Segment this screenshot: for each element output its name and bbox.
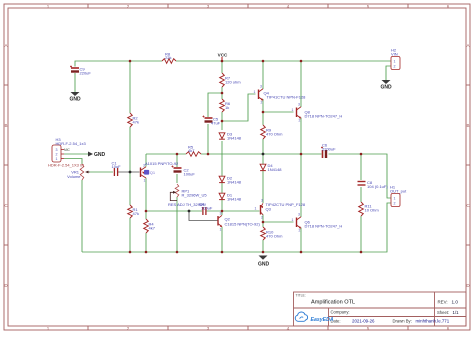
svg-text:470 Ohm: 470 Ohm <box>266 234 283 239</box>
node ground rail RP1 <box>176 251 179 254</box>
wire input node to R1 top <box>129 172 131 205</box>
svg-text:EasyEDA: EasyEDA <box>311 317 334 323</box>
capacitor C2 100uF polarized <box>172 166 182 172</box>
pin numbers Q3 <box>255 199 264 220</box>
wire H2 pin2 to GND <box>386 66 391 80</box>
svg-text:47k: 47k <box>133 211 139 216</box>
wire R2 top <box>129 61 131 113</box>
resistor R1 47k <box>128 205 133 218</box>
node ground rail R4 <box>145 251 148 254</box>
svg-text:A: A <box>4 43 7 48</box>
wire Q1 emitter up to feedback rail <box>145 154 147 167</box>
wire top supply rail left of R8 <box>75 61 162 67</box>
wire R2 bottom to input node <box>129 127 131 172</box>
wire C5 branch top <box>208 93 222 117</box>
node ground rail R11 <box>360 251 363 254</box>
power flag VCC <box>218 53 228 62</box>
svg-text:10 Ohm: 10 Ohm <box>365 208 380 213</box>
svg-text:B: B <box>4 123 7 128</box>
wire C2 branch top <box>176 154 178 167</box>
wire C1 to Q1 base <box>118 171 140 173</box>
svg-text:R_3296W_U5: R_3296W_U5 <box>182 193 208 198</box>
node top rail / R2 <box>129 60 132 63</box>
transistor Q6 D718 NPN <box>297 217 302 229</box>
svg-text:GND: GND <box>94 152 106 158</box>
node VAS / C4 right <box>221 210 224 213</box>
wire R7 to R6 <box>221 87 223 99</box>
svg-text:2: 2 <box>261 101 263 105</box>
svg-text:1N4148: 1N4148 <box>227 197 242 202</box>
wire RP1 bottom to ground rail <box>176 197 178 252</box>
svg-text:10uF: 10uF <box>112 164 122 169</box>
node input divider / Q1 base <box>129 171 132 174</box>
svg-text:1/1: 1/1 <box>453 310 460 315</box>
wire VAS node horizontal left segment <box>146 210 202 212</box>
node R7 R6 C5 <box>221 92 224 95</box>
node ground rail Q6 emitter <box>300 251 303 254</box>
wire H3 pin1 to VR1 top <box>64 159 82 165</box>
svg-text:Volume: Volume <box>67 174 81 179</box>
ground flag at H3 pin2 <box>88 152 106 159</box>
pin numbers Q2 <box>220 212 222 232</box>
svg-text:MIC: MIC <box>64 148 71 152</box>
svg-text:Company:: Company: <box>331 310 350 315</box>
svg-text:1: 1 <box>255 207 257 211</box>
ground symbol under H2 <box>380 80 392 91</box>
title block <box>294 292 467 326</box>
wire Q6 collector to output rail <box>300 154 302 217</box>
transistor Q3 TIP42CTU PNP <box>261 203 264 215</box>
wire output rail R5 to C6 <box>201 153 322 155</box>
svg-text:REV:: REV: <box>438 300 448 305</box>
pin numbers Q4 <box>254 85 263 105</box>
svg-text:470 Ohm: 470 Ohm <box>266 132 283 137</box>
pin numbers Q1 <box>143 164 146 183</box>
svg-text:C1815 NPN(TO-92): C1815 NPN(TO-92) <box>225 221 261 226</box>
node top rail / Q4 collector <box>262 60 265 63</box>
connector H3 HDR-F-2.54_1x3 <box>52 145 64 162</box>
resistor R2 47k <box>128 113 133 127</box>
svg-text:Amplification OTL: Amplification OTL <box>311 300 355 306</box>
svg-text:1.0: 1.0 <box>452 300 459 305</box>
diode D3 1N4148 <box>219 133 225 139</box>
svg-text:A1015 PNP/TO-92: A1015 PNP/TO-92 <box>145 161 179 166</box>
svg-text:2: 2 <box>56 153 58 157</box>
svg-text:1: 1 <box>254 90 256 94</box>
svg-text:D718 NPN-TO247_H: D718 NPN-TO247_H <box>305 224 343 229</box>
svg-text:Q3: Q3 <box>266 206 272 211</box>
svg-text:4k7: 4k7 <box>149 226 156 231</box>
wire Q8 collector to rail <box>300 61 302 107</box>
svg-text:1N4148: 1N4148 <box>268 167 283 172</box>
wire C9 to GND <box>74 73 76 92</box>
svg-text:104 (0.1uF): 104 (0.1uF) <box>367 184 388 189</box>
wire Q2 emitter to ground rail <box>221 227 223 252</box>
svg-text:1: 1 <box>144 179 146 183</box>
wire feedback rail left of R5 <box>146 153 186 155</box>
wire D2 to D1 <box>221 183 223 193</box>
svg-text:OUT_put: OUT_put <box>390 189 407 194</box>
svg-text:GND: GND <box>69 97 81 103</box>
node feedback rail / C2 <box>176 153 179 156</box>
svg-text:3: 3 <box>260 85 262 89</box>
wire Q8 base <box>263 111 294 113</box>
node output rail / R9 D4 <box>262 153 265 156</box>
node output rail / zobel <box>360 153 363 156</box>
svg-text:2: 2 <box>299 229 301 233</box>
wire VR1 bottom to ground rail <box>81 180 83 252</box>
svg-text:2: 2 <box>261 216 263 220</box>
resistor R7 120 ohm <box>220 73 225 87</box>
capacitor C8 104 (0.1uF) <box>358 182 366 186</box>
wire R4 bottom to ground rail <box>145 233 147 252</box>
svg-text:HDR-F-2.54_1X3 01: HDR-F-2.54_1X3 01 <box>48 163 85 168</box>
capacitor C6 2200uF polarized <box>321 147 326 159</box>
ground symbol under C9 <box>69 92 81 103</box>
svg-text:3: 3 <box>298 213 300 217</box>
wire Q8 emitter to output rail <box>300 118 302 155</box>
resistor R5 4k7 <box>186 152 201 157</box>
svg-text:2021-09-26: 2021-09-26 <box>352 319 375 324</box>
svg-text:2: 2 <box>394 202 396 206</box>
node top rail / Q8 collector <box>300 60 303 63</box>
wire C8 to R11 <box>360 187 362 202</box>
wire Q4 collector to rail <box>262 61 264 89</box>
resistor R11 10 Ohm <box>359 202 364 216</box>
svg-text:3: 3 <box>298 103 300 107</box>
wire Q2 base drop <box>189 211 218 221</box>
wire D4 to Q3 emitter <box>262 171 264 203</box>
svg-text:2: 2 <box>299 119 301 123</box>
svg-text:minhthanh.le.771: minhthanh.le.771 <box>416 319 450 324</box>
capacitor C1 10uF <box>114 168 117 176</box>
svg-text:120 ohm: 120 ohm <box>225 80 241 85</box>
svg-text:22k: 22k <box>165 55 171 60</box>
transistor Q1 A1015 PNP <box>141 167 147 178</box>
svg-text:1: 1 <box>292 218 294 222</box>
pin numbers Q6 <box>292 213 301 233</box>
EasyEDA logo <box>295 312 334 323</box>
capacitor C5 47uF polarized <box>203 116 213 122</box>
svg-text:47uF: 47uF <box>211 121 221 126</box>
capacitor C9 220uF polarized <box>70 66 79 72</box>
svg-text:1: 1 <box>220 228 222 232</box>
svg-text:Q1: Q1 <box>150 170 156 175</box>
wire R11 to ground rail <box>360 216 362 252</box>
svg-text:D718 NPN-TO247_H: D718 NPN-TO247_H <box>305 114 343 119</box>
svg-text:3: 3 <box>261 199 263 203</box>
wire Q6 emitter to ground rail <box>300 228 302 253</box>
svg-text:GND: GND <box>380 85 392 91</box>
wire R9 to output rail <box>262 139 264 154</box>
svg-text:VIN: VIN <box>391 52 398 57</box>
wire output rail C6 to H1 pin1 <box>329 154 392 198</box>
svg-text:2200uF: 2200uF <box>322 146 336 151</box>
wire node to R10 <box>262 222 264 227</box>
wire VR1 wiper to C1 <box>86 171 113 173</box>
svg-text:B: B <box>466 123 469 128</box>
pin numbers Q8 <box>292 103 301 123</box>
wire Q1 collector down <box>145 178 147 219</box>
transistor Q2 C1815 NPN <box>218 215 222 227</box>
wire D3 to D2 <box>221 141 223 176</box>
connector H1 OUT_put <box>391 194 400 207</box>
wire Q4 base drive <box>222 94 256 121</box>
wire C5 bottom to feedback rail <box>207 124 209 154</box>
svg-text:2: 2 <box>394 65 396 69</box>
node VCC / R7 <box>221 60 224 63</box>
svg-text:1k: 1k <box>225 105 229 110</box>
trimmer RP1 R_3296W_U5 <box>175 184 179 197</box>
svg-text:GND: GND <box>258 262 270 268</box>
pin numbers H3 <box>56 148 58 161</box>
wire Q6 base <box>263 221 294 223</box>
svg-text:3: 3 <box>220 212 222 216</box>
capacitor C4 100uF <box>203 207 206 215</box>
transistor Q4 TIP41CTU NPN <box>259 89 264 101</box>
potentiometer VR1 Volume <box>80 164 84 180</box>
svg-text:100uF: 100uF <box>201 205 213 210</box>
node R6 D3 base-drive <box>221 120 224 123</box>
wire C4 to Q3 base <box>206 210 260 212</box>
svg-text:3: 3 <box>143 164 145 168</box>
svg-text:TITLE:: TITLE: <box>296 294 306 298</box>
wire C2 to RP1 <box>176 174 178 183</box>
wire VCC node to R7 <box>221 61 223 73</box>
svg-text:1: 1 <box>292 108 294 112</box>
connector H2 power input <box>391 57 400 70</box>
pin numbers H1 <box>394 197 396 206</box>
svg-text:1N4148: 1N4148 <box>227 136 242 141</box>
diode D4 1N4148 <box>260 164 266 170</box>
node ground rail R1 <box>129 251 132 254</box>
svg-text:100uF: 100uF <box>184 172 196 177</box>
node Q3 collector / Q6 base / R10 <box>262 221 265 224</box>
svg-text:47k: 47k <box>133 120 139 125</box>
node Q4 emitter / Q8 base <box>262 111 265 114</box>
node feedback rail / C5 <box>207 153 210 156</box>
wire Q4 emitter to node <box>262 99 264 112</box>
svg-text:1N4148: 1N4148 <box>227 180 242 185</box>
svg-text:220uF: 220uF <box>80 71 92 76</box>
svg-text:VCC: VCC <box>218 53 228 58</box>
pin numbers H2 <box>394 60 396 69</box>
diode D2 1N4148 <box>219 176 225 182</box>
resistor R10 470 Ohm <box>261 227 266 240</box>
svg-text:3: 3 <box>56 148 58 152</box>
wire D1 to VAS node <box>221 200 223 215</box>
svg-text:4k7: 4k7 <box>188 148 195 153</box>
node ground rail R10 GND <box>262 251 265 254</box>
node output rail / Q8 Q6 <box>300 153 303 156</box>
wire R1 bottom to ground rail <box>129 218 131 252</box>
wire node to R9 <box>262 112 264 125</box>
wire top supply rail R8 to H2 pin1 <box>176 60 391 62</box>
node Q1 collector / C4 left rail <box>145 210 148 213</box>
wire output rail to D4 <box>262 154 264 164</box>
svg-text:TIP42CTU PNP_F128: TIP42CTU PNP_F128 <box>266 202 306 207</box>
svg-text:Sheet:: Sheet: <box>437 310 449 315</box>
wire ground rail <box>82 203 391 252</box>
wire H3 pin2 to GND flag <box>64 153 88 155</box>
diode D1 1N4148 <box>219 193 225 199</box>
resistor R6 1k <box>220 99 225 112</box>
resistor R9 470 Ohm <box>261 125 266 139</box>
wire Q3 collector to node <box>262 215 264 223</box>
svg-text:1: 1 <box>56 157 58 161</box>
svg-text:A: A <box>466 43 469 48</box>
ground symbol bottom center <box>258 256 270 268</box>
resistor R4 4k7 <box>144 219 149 233</box>
node Q2 base drop <box>188 210 191 213</box>
wire R10 to ground rail <box>262 240 264 252</box>
transistor Q8 D718 NPN <box>297 107 302 119</box>
wire zobel C8 top <box>360 154 362 180</box>
wire R6 to D3 node <box>221 112 223 130</box>
svg-text:1: 1 <box>394 60 396 64</box>
resistor R8 22k <box>162 59 176 64</box>
node ground rail Q2 emitter <box>221 251 224 254</box>
svg-text:1: 1 <box>394 197 396 201</box>
svg-text:HDR-F-2.54_1x3: HDR-F-2.54_1x3 <box>56 141 87 146</box>
svg-text:TIP41CTU NPN-F128: TIP41CTU NPN-F128 <box>267 95 307 100</box>
svg-text:Drawn By:: Drawn By: <box>393 319 412 324</box>
